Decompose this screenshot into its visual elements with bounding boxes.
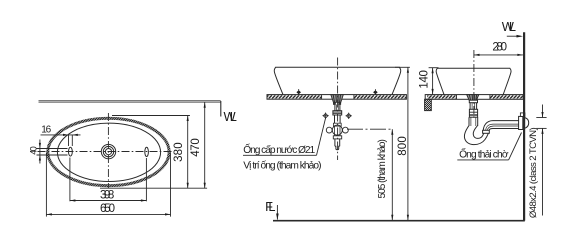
dim505 arrows (391, 129, 393, 135)
dim470 arrows (204, 102, 206, 108)
dim40 arrows (39, 143, 41, 149)
dim16 arrows (63, 134, 69, 136)
svg-text:Vị trí ống (tham khảo): Vị trí ống (tham khảo) (243, 159, 321, 171)
WL arrow right (517, 35, 524, 38)
svg-text:380: 380 (173, 142, 185, 162)
wall fitting (519, 113, 529, 130)
dim650 arrows (46, 213, 52, 215)
apron block (425, 99, 432, 110)
svg-text:Ø48x2.4 (class 2 TCVN): Ø48x2.4 (class 2 TCVN) (528, 127, 539, 218)
svg-text:FL: FL (265, 199, 275, 214)
tail stack (469, 100, 478, 126)
dim 398 (70, 158, 146, 202)
dim 48 (536, 105, 546, 216)
bowl right side (503, 68, 511, 94)
P-trap (464, 121, 519, 145)
svg-text:Ống thải chờ: Ống thải chờ (459, 147, 509, 161)
basin inner rim (57, 123, 160, 181)
dim48 arrows (541, 112, 543, 118)
dim 505 (391, 129, 393, 220)
dim280 arrows (474, 54, 480, 56)
FL arrow (276, 214, 279, 221)
thai cho label underline + leader (457, 159, 508, 161)
dim 380 (100, 116, 207, 189)
wall edge double line (39, 101, 221, 117)
FL arrow (276, 205, 278, 220)
svg-text:16: 16 (41, 125, 51, 136)
svg-text:800: 800 (397, 136, 409, 156)
dimension labels (28, 41, 507, 214)
dim 650 (46, 153, 170, 217)
tailpiece (333, 102, 342, 123)
dim 280 (474, 54, 523, 56)
stop valve (326, 123, 348, 150)
bowl left side (436, 68, 444, 94)
floor line (273, 220, 525, 222)
drain centerline (right) (473, 50, 475, 118)
dim140 arrows (432, 68, 434, 74)
svg-text:WL: WL (224, 109, 237, 124)
svg-text:505 (tham khảo): 505 (tham khảo) (377, 139, 388, 198)
dim 40 (37, 140, 68, 164)
counter band (425, 95, 523, 100)
dim800 arrows (407, 67, 409, 73)
dim 16 (41, 135, 81, 146)
basin outer rim (hatched band) (48, 118, 169, 185)
drain flange (467, 95, 479, 101)
WL arrow (507, 35, 521, 37)
bowl rim (275, 66, 400, 68)
centerlines (38, 113, 174, 189)
bowl right side (392, 67, 401, 94)
counter bolts (296, 90, 377, 94)
dim 470 (204, 102, 206, 188)
svg-text:280: 280 (492, 41, 507, 53)
svg-text:650: 650 (100, 203, 115, 215)
dim 800 (395, 67, 410, 220)
dim380 arrows (187, 116, 189, 122)
counter band (267, 95, 406, 100)
bowl rim (437, 67, 510, 69)
svg-text:140: 140 (419, 70, 431, 89)
svg-text:398: 398 (100, 189, 114, 201)
faucet holes (69, 147, 73, 156)
position markers (322, 113, 328, 119)
drain circles (101, 144, 115, 158)
flange legs (333, 102, 335, 104)
dim 140 (429, 68, 439, 95)
svg-text:Ống cấp nước Ø21: Ống cấp nước Ø21 (243, 142, 315, 156)
svg-text:470: 470 (190, 138, 202, 157)
bowl left side (274, 67, 283, 94)
dim398 arrows (70, 199, 76, 201)
label underline + leader (243, 154, 317, 156)
center line (337, 58, 339, 161)
svg-text:WL: WL (502, 19, 516, 34)
wall line (523, 32, 525, 220)
valve height extension (347, 128, 393, 130)
svg-text:40: 40 (28, 146, 38, 155)
drain flange (331, 95, 344, 103)
